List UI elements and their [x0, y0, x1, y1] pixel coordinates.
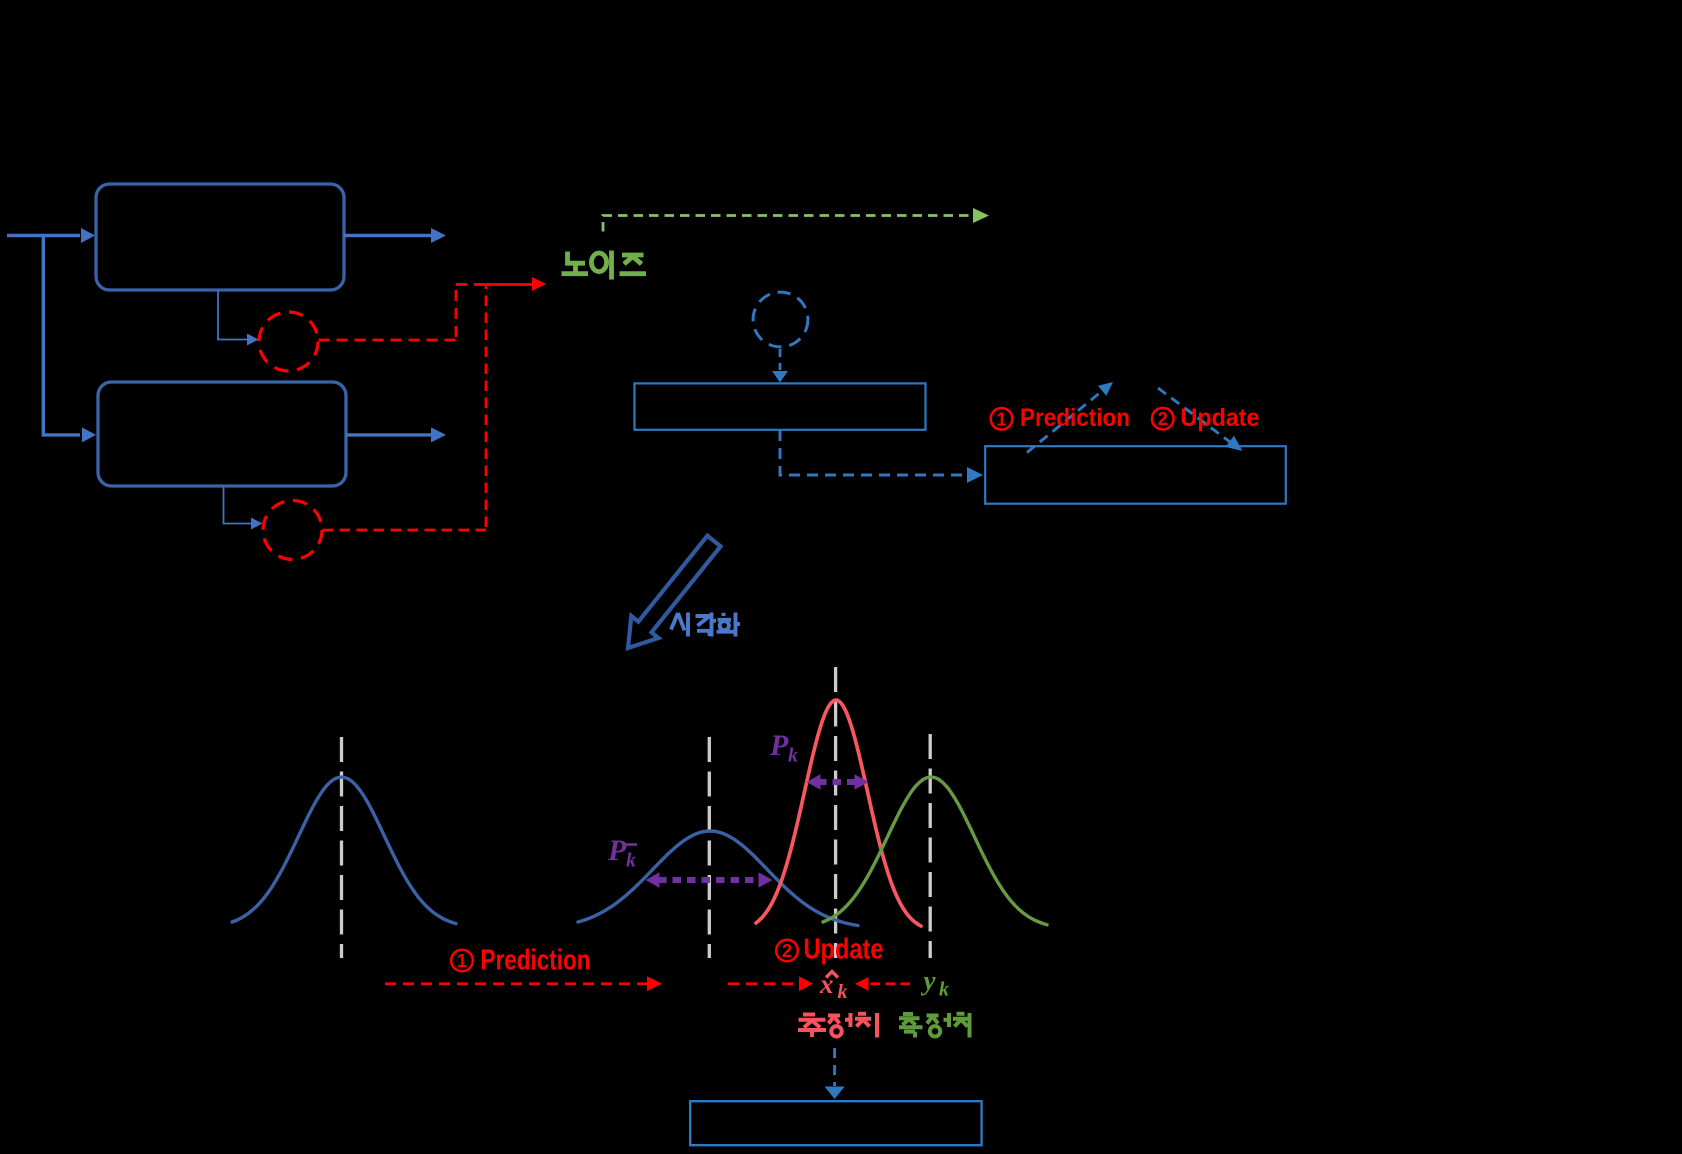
label 1 prediction bottom [451, 950, 473, 972]
svg-text:2: 2 [782, 941, 792, 961]
green noise dashed arrow [603, 216, 973, 232]
wire U1 drop to node Q [218, 290, 248, 340]
wire input [7, 234, 80, 237]
dashed arrow estimate to output box (blue) [833, 1048, 836, 1086]
gaussian updated estimate (red) [756, 700, 921, 926]
box fusion [635, 383, 926, 429]
wire U2 output [346, 433, 431, 436]
dashed arrow prediction up [1027, 391, 1102, 453]
label estimate (Korean, red) [798, 1013, 877, 1038]
svg-text:2: 2 [1158, 409, 1168, 429]
wire U2 drop to node R [224, 487, 253, 524]
svg-text:Prediction: Prediction [1020, 404, 1130, 432]
gaussian predicted prior (blue) [578, 831, 858, 926]
label 2 update bottom [776, 940, 798, 962]
arrowhead red noise [532, 277, 546, 291]
arrowhead into node Q [247, 334, 259, 346]
dashed arrow update down [1158, 388, 1230, 442]
svg-text:k: k [626, 850, 636, 872]
guide dashed line k estimate [834, 667, 837, 958]
node Q process-noise circle (red dashed) [259, 312, 318, 371]
node R measurement-noise circle (red dashed) [263, 501, 322, 560]
label measurement (Korean, green) [899, 1013, 970, 1038]
guide dashed line k-1 [340, 737, 343, 958]
red dashed wire from node Q [319, 284, 485, 340]
guide dashed line k measurement [929, 734, 932, 958]
arrowhead U1 output [431, 228, 446, 243]
box U2 measurement model (rounded) [98, 382, 346, 486]
arrowhead green noise [973, 208, 989, 223]
svg-text:k: k [838, 981, 848, 1003]
box kalman filter [985, 446, 1286, 504]
dashed arrow fusion circle to box [779, 349, 782, 370]
svg-text:1: 1 [457, 951, 467, 971]
wire branch down [43, 234, 80, 435]
node fusion circle (blue dashed) [753, 292, 808, 347]
red noise arrow solid [484, 283, 532, 286]
update dashed arrow (red, toward x-hat) [728, 982, 799, 985]
svg-text:Update: Update [1181, 404, 1260, 432]
arrowhead update down [1226, 436, 1243, 451]
arrowhead into node R [251, 518, 263, 530]
label 2 update top [1152, 408, 1174, 430]
label noise (Korean) [562, 251, 647, 280]
svg-text:1: 1 [996, 409, 1006, 429]
red dashed wire from node R [323, 286, 487, 530]
box output [690, 1101, 981, 1145]
prediction dashed arrow (red) [385, 982, 647, 985]
wire U1 output [344, 234, 431, 237]
arrowhead into fusion box [772, 371, 788, 383]
svg-text:P: P [607, 834, 627, 867]
Pk variance arrow (purple dashed, two heads) [818, 779, 857, 785]
svg-text:Update: Update [804, 934, 884, 966]
box U1 state model (rounded) [96, 184, 344, 290]
svg-text:y: y [921, 966, 937, 996]
visualization hollow arrow [628, 536, 721, 648]
gaussian previous estimate (blue) [232, 777, 456, 924]
label visualization (Korean) [671, 613, 740, 637]
label 1 prediction top [991, 408, 1013, 430]
Pk-bar variance arrow (purple dashed, two heads) [658, 877, 760, 883]
guide dashed line k prior [708, 737, 711, 958]
arrowhead U2 output [431, 427, 446, 442]
svg-text:P: P [769, 729, 789, 762]
arrowhead prediction up [1098, 382, 1113, 396]
dashed wire fusion to kalman box [780, 430, 966, 475]
arrowhead into kalman box [967, 467, 983, 483]
measurement dashed arrow (red, leftward) [870, 982, 910, 985]
gaussian measurement (green) [823, 777, 1047, 925]
arrowhead input to box U1 [81, 228, 95, 243]
arrowhead branch to box U2 [82, 427, 96, 442]
svg-text:k: k [939, 979, 949, 1001]
svg-text:k: k [788, 745, 798, 767]
svg-text:Prediction: Prediction [481, 945, 591, 977]
